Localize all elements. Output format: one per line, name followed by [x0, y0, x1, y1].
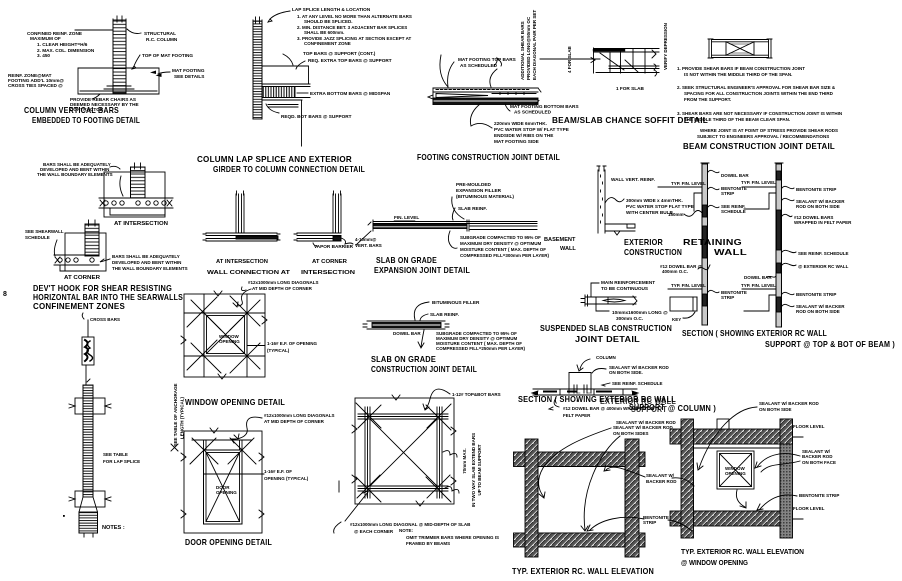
svg-text:AT CORNER: AT CORNER [312, 259, 347, 265]
svg-text:REQD. BOT BARS @ SUPPORT: REQD. BOT BARS @ SUPPORT [281, 114, 352, 119]
svg-text:DOWEL BAR: DOWEL BAR [744, 275, 772, 280]
right band R [625, 439, 639, 557]
svg-text:150mm: 150mm [668, 212, 684, 217]
svg-text:PVC WATER STOP FLAT TYPE: PVC WATER STOP FLAT TYPE [626, 204, 694, 209]
svg-text:COLUMN VERTICAL BARS: COLUMN VERTICAL BARS [24, 106, 119, 115]
leaders Q [577, 359, 590, 371]
leaders M [414, 302, 429, 321]
svg-text:AT INTERSECTION: AT INTERSECTION [114, 221, 168, 227]
svg-text:WALL: WALL [714, 248, 747, 257]
svg-text:IS NOT WITHIN THE MIDDLE THIRD: IS NOT WITHIN THE MIDDLE THIRD OF THE SP… [684, 72, 792, 77]
svg-text:FOOTING CONSTRUCTION JOINT DET: FOOTING CONSTRUCTION JOINT DETAIL [417, 153, 560, 162]
svg-text:SHOULD BE SPLICED.: SHOULD BE SPLICED. [304, 19, 353, 24]
svg-text:BENTONITE STRIP: BENTONITE STRIP [799, 493, 839, 498]
svg-text:(TYPICAL): (TYPICAL) [267, 348, 290, 353]
svg-text:ENDSIDE W/ RIBS ON THE: ENDSIDE W/ RIBS ON THE [494, 133, 553, 138]
svg-text:SEALANT W/ BACKER ROD: SEALANT W/ BACKER ROD [613, 425, 673, 430]
leaders H [452, 197, 464, 220]
svg-text:COLUMN: COLUMN [596, 355, 616, 360]
svg-text:@ WINDOW OPENING: @ WINDOW OPENING [681, 558, 748, 567]
svg-text:UP TO BEAM SUPPORT: UP TO BEAM SUPPORT [477, 444, 482, 495]
svg-text:2. SEEK STRUCTURAL ENGINEER'S: 2. SEEK STRUCTURAL ENGINEER'S APPROVAL F… [677, 85, 836, 90]
svg-text:INTERSECTION: INTERSECTION [301, 270, 355, 276]
inner outline S [694, 444, 781, 511]
svg-text:BEAM CONSTRUCTION JOINT DETAIL: BEAM CONSTRUCTION JOINT DETAIL [683, 142, 835, 151]
svg-text:AS SCHEDULED: AS SCHEDULED [514, 110, 552, 115]
svg-text:#12x1000mm LONG DIAGONALS: #12x1000mm LONG DIAGONALS [248, 280, 319, 285]
floor level lines S [793, 437, 804, 519]
svg-text:SLAB ON GRADE: SLAB ON GRADE [371, 355, 436, 364]
X brace O [206, 453, 240, 522]
svg-text:ROD ON BOTH SIDE: ROD ON BOTH SIDE [796, 204, 840, 209]
svg-text:4-10mm@: 4-10mm@ [355, 237, 377, 242]
lone tick [338, 481, 340, 492]
column A ladder [113, 16, 126, 93]
svg-text:SEALANT W/: SEALANT W/ [646, 473, 675, 478]
slab K [581, 283, 637, 311]
svg-text:THE WALL BOUNDARY ELEMENTS: THE WALL BOUNDARY ELEMENTS [112, 266, 188, 271]
labels B [197, 7, 412, 174]
outer box P [355, 398, 454, 504]
splice flare bottom [75, 491, 105, 507]
inner window box L [204, 313, 247, 356]
lap cone N [79, 497, 98, 512]
retaining wall section [658, 163, 709, 325]
svg-text:@ EXTERIOR RC WALL: @ EXTERIOR RC WALL [798, 264, 849, 269]
leader rebar chairs [92, 94, 100, 99]
svg-text:STRIP: STRIP [643, 520, 656, 525]
svg-text:IN TWO WAY SLAB EXTEND BARS: IN TWO WAY SLAB EXTEND BARS [471, 433, 476, 507]
wall2 section [742, 163, 783, 327]
svg-text:PRE-MOULDED: PRE-MOULDED [456, 182, 492, 187]
svg-text:SUBGRADE COMPACTED TO 95% OF: SUBGRADE COMPACTED TO 95% OF [460, 235, 541, 240]
left band R [525, 439, 538, 557]
svg-text:BENTONITE STRIP: BENTONITE STRIP [796, 187, 836, 192]
svg-text:STRIP: STRIP [721, 191, 734, 196]
svg-text:SLAB REINF.: SLAB REINF. [458, 206, 487, 211]
G corner [294, 191, 353, 244]
svg-text:@ EACH CORNER: @ EACH CORNER [354, 529, 394, 534]
svg-text:WITH CENTER BULB: WITH CENTER BULB [626, 210, 673, 215]
svg-text:ROD ON BOTH SIDE: ROD ON BOTH SIDE [796, 309, 840, 314]
svg-text:MAT FOOTING BOTTOM BARS: MAT FOOTING BOTTOM BARS [510, 104, 579, 109]
svg-text:FROM THE SUPPORT.: FROM THE SUPPORT. [684, 97, 731, 102]
svg-text:TO BE CONTINUOUS: TO BE CONTINUOUS [601, 286, 648, 291]
svg-text:STRIP: STRIP [721, 295, 734, 300]
bottom band S [670, 511, 793, 526]
svg-text:VERT. BARS: VERT. BARS [355, 243, 382, 248]
svg-text:8: 8 [3, 291, 7, 298]
svg-text:OPENING: OPENING [216, 490, 237, 495]
svg-text:1 FOR SLAB: 1 FOR SLAB [616, 86, 644, 91]
leader confined reinf zone [75, 29, 113, 31]
labels H [314, 182, 576, 275]
svg-text:SEE TABLE: SEE TABLE [103, 452, 128, 457]
svg-text:GIRDER TO COLUMN CONNECTION DE: GIRDER TO COLUMN CONNECTION DETAIL [213, 165, 365, 174]
svg-text:TOP BARS @ SUPPORT (CONT.): TOP BARS @ SUPPORT (CONT.) [303, 51, 376, 56]
door jambs O [204, 450, 243, 524]
svg-text:CROSS BARS: CROSS BARS [90, 317, 120, 322]
svg-text:WHERE JOINT IS AT POINT OF STR: WHERE JOINT IS AT POINT OF STRESS PROVID… [700, 128, 838, 133]
svg-text:TYP. FIN. LEVEL: TYP. FIN. LEVEL [671, 181, 706, 186]
labels A [8, 31, 205, 125]
svg-text:ADDITIONAL SHEAR BARS: ADDITIONAL SHEAR BARS [520, 21, 525, 80]
svg-text:(BITUMINOUS MATERIAL): (BITUMINOUS MATERIAL) [456, 194, 514, 199]
svg-text:10mmx1600mm LONG @: 10mmx1600mm LONG @ [612, 310, 668, 315]
svg-text:TYP. EXTERIOR RC. WALL ELEVATI: TYP. EXTERIOR RC. WALL ELEVATION [681, 547, 804, 556]
band lines L [184, 294, 265, 377]
svg-text:TYP. FIN. LEVEL: TYP. FIN. LEVEL [671, 283, 706, 288]
slab band Q [533, 389, 637, 395]
svg-text:SEE SHEARWALL: SEE SHEARWALL [25, 229, 64, 234]
tie box N [82, 337, 94, 365]
svg-text:WRAPPED IN FELT PAPER: WRAPPED IN FELT PAPER [794, 220, 852, 225]
leader I [605, 198, 624, 203]
svg-text:TOP OF MAT FOOTING: TOP OF MAT FOOTING [142, 53, 193, 58]
svg-text:AT MID DEPTH OF CORNER: AT MID DEPTH OF CORNER [252, 286, 313, 291]
svg-text:BASEMENT: BASEMENT [544, 237, 576, 243]
top band S [670, 429, 793, 444]
svg-text:DEV'T HOOK FOR SHEAR RESISTING: DEV'T HOOK FOR SHEAR RESISTING [33, 284, 172, 293]
svg-text:COMPRESSED FILL=300mm PER LAYE: COMPRESSED FILL=300mm PER LAYER) [460, 253, 549, 258]
svg-text:CONSTRUCTION JOINT DETAIL: CONSTRUCTION JOINT DETAIL [371, 365, 477, 374]
corner diagonals L [187, 296, 260, 373]
svg-text:EXTERIOR: EXTERIOR [624, 238, 663, 247]
leader L diagonals label [233, 289, 251, 307]
svg-text:R.C. COLUMN: R.C. COLUMN [146, 37, 178, 42]
breaks O [181, 428, 264, 518]
svg-text:PVC WATER STOP W/ FLAT TYPE: PVC WATER STOP W/ FLAT TYPE [494, 127, 569, 132]
svg-text:SUSPENDED SLAB CONSTRUCTION: SUSPENDED SLAB CONSTRUCTION [540, 324, 672, 333]
svg-text:1-12# TOP&BOT BARS: 1-12# TOP&BOT BARS [452, 392, 501, 397]
svg-text:SUBJECT TO ENGINEERS APPROVAL: SUBJECT TO ENGINEERS APPROVAL / RECOMMEN… [697, 134, 829, 139]
vertical label D [567, 23, 668, 91]
leader O [234, 417, 262, 439]
svg-text:EXPANSION JOINT DETAIL: EXPANSION JOINT DETAIL [374, 266, 470, 275]
svg-text:SEE REINF. SCHEDULE: SEE REINF. SCHEDULE [612, 381, 663, 386]
svg-text:FOR LAP SPLICE: FOR LAP SPLICE [103, 459, 140, 464]
svg-text:WALL CONNECTION AT: WALL CONNECTION AT [207, 270, 291, 276]
svg-text:LAP SPLICE LENGTH & LOCATION: LAP SPLICE LENGTH & LOCATION [292, 7, 371, 12]
svg-text:DEVELOPED AND BENT WITHIN: DEVELOPED AND BENT WITHIN [112, 260, 181, 265]
window S [717, 451, 754, 489]
svg-text:EMBEDDED TO FOOTING DETAIL: EMBEDDED TO FOOTING DETAIL [32, 116, 140, 125]
svg-text:70mm MAX.: 70mm MAX. [462, 448, 467, 474]
svg-text:PROVIDED LONG@50mm OC: PROVIDED LONG@50mm OC [526, 16, 531, 80]
wall I [597, 166, 635, 235]
svg-text:WINDOW OPENING DETAIL: WINDOW OPENING DETAIL [185, 398, 285, 407]
svg-text:BARS SHALL BE ADEQUATELY: BARS SHALL BE ADEQUATELY [112, 254, 180, 259]
svg-text:FRAMED BY BEAMS: FRAMED BY BEAMS [406, 541, 450, 546]
svg-text:300mm O.C.: 300mm O.C. [616, 316, 643, 321]
F1 at intersection [99, 163, 173, 217]
tall bar N [83, 385, 93, 497]
right band S [780, 419, 793, 538]
svg-text:220mm WIDE 6mmTHK.: 220mm WIDE 6mmTHK. [494, 121, 547, 126]
outer box L [184, 294, 265, 377]
svg-text:#12x1000mm LONG DIAGONAL @ MID: #12x1000mm LONG DIAGONAL @ MID-DEPTH OF … [350, 522, 471, 527]
svg-text:SEALANT W/ BACKER ROD: SEALANT W/ BACKER ROD [616, 420, 676, 425]
bar bundles P [358, 414, 448, 419]
svg-text:FIN. LEVEL: FIN. LEVEL [394, 215, 419, 220]
svg-text:DOOR OPENING DETAIL: DOOR OPENING DETAIL [185, 538, 272, 547]
svg-text:3. 450: 3. 450 [37, 53, 50, 58]
top band R [514, 452, 646, 467]
labels G [207, 237, 382, 291]
svg-text:REQ. EXTRA TOP BARS @ SUPPORT: REQ. EXTRA TOP BARS @ SUPPORT [308, 58, 392, 63]
svg-text:WALL VERT. REINF.: WALL VERT. REINF. [611, 177, 655, 182]
svg-text:MAXIMUM OF: MAXIMUM OF [30, 36, 61, 41]
mid line O [204, 473, 265, 475]
bottom band R [514, 533, 646, 547]
footing A [78, 68, 159, 94]
beam sketch E [708, 39, 772, 58]
svg-text:RETAINING: RETAINING [683, 238, 742, 247]
X brace L [207, 316, 245, 354]
arrow top of mat footing [132, 55, 140, 69]
labels J [660, 173, 895, 349]
svg-text:ON BOTH SIDE: ON BOTH SIDE [759, 407, 792, 412]
svg-text:DOWEL BAR: DOWEL BAR [721, 173, 749, 178]
leaders B [268, 11, 290, 22]
svg-text:MAT FOOTING TOP BARS: MAT FOOTING TOP BARS [458, 57, 516, 62]
svg-text:OMIT TRIMMER BARS WHERE OPENIN: OMIT TRIMMER BARS WHERE OPENING IS [406, 535, 499, 540]
svg-text:BEAM/SLAB CHANCE SOFFIT DETAIL: BEAM/SLAB CHANCE SOFFIT DETAIL [552, 116, 708, 125]
svg-text:SEALANT W/ BACKER ROD: SEALANT W/ BACKER ROD [759, 401, 819, 406]
svg-text:SEE DETAILS: SEE DETAILS [174, 74, 204, 79]
slab H [368, 220, 537, 231]
svg-text:#12 DOWEL BAR @ 400mm WRAPPED: #12 DOWEL BAR @ 400mm WRAPPED ON [563, 406, 654, 411]
corner ticks P [356, 403, 451, 502]
svg-text:JOINT DETAIL: JOINT DETAIL [575, 335, 640, 344]
soffit sketch [591, 48, 659, 76]
svg-text:@ COLUMN ): @ COLUMN ) [668, 404, 716, 413]
svg-text:EACH DIAGONAL PAIR PER SET: EACH DIAGONAL PAIR PER SET [532, 10, 537, 80]
outer box O [184, 431, 262, 533]
svg-text:SEE REINF. SCHEDULE: SEE REINF. SCHEDULE [798, 251, 849, 256]
svg-text:ON BOTH SIDES: ON BOTH SIDES [613, 431, 649, 436]
arrows mat footing [150, 71, 162, 78]
leaders R [539, 428, 611, 498]
svg-text:DOWEL BAR: DOWEL BAR [393, 331, 421, 336]
leader structural col [127, 29, 141, 34]
svg-text:VAPOR BARRIER: VAPOR BARRIER [314, 244, 354, 249]
svg-text:MAXIMUM DRY DENSITY @ OPTIMUM: MAXIMUM DRY DENSITY @ OPTIMUM [460, 241, 542, 246]
svg-text:SLAB ON GRADE: SLAB ON GRADE [376, 256, 437, 265]
column B ladder [253, 17, 262, 119]
svg-text:300mm WIDE x 4mmTHK.: 300mm WIDE x 4mmTHK. [626, 198, 683, 203]
svg-text:SUPPORT @ TOP & BOT OF BEAM ): SUPPORT @ TOP & BOT OF BEAM ) [765, 340, 895, 349]
svg-text:BACKER ROD: BACKER ROD [646, 479, 677, 484]
svg-text:EXPANSION FILLER: EXPANSION FILLER [456, 188, 502, 193]
svg-text:400mm O.C.: 400mm O.C. [662, 269, 688, 274]
svg-text:OPENING: OPENING [219, 339, 240, 344]
svg-text:SCHEDULE: SCHEDULE [721, 209, 746, 214]
svg-text:SLAB REINF.: SLAB REINF. [430, 312, 459, 317]
svg-text:1. PROVIDE SHEAR BARS IF BEAM: 1. PROVIDE SHEAR BARS IF BEAM CONSTRUCTI… [677, 66, 805, 71]
svg-text:NOTE:: NOTE: [399, 528, 414, 533]
svg-text:SCHEDULE: SCHEDULE [25, 235, 50, 240]
svg-text:WALL: WALL [560, 246, 576, 252]
svg-text:CONFINEMENT ZONES: CONFINEMENT ZONES [33, 302, 125, 311]
svg-text:AS SCHEDULED: AS SCHEDULED [460, 63, 498, 68]
svg-text:STRUCTURAL: STRUCTURAL [144, 31, 176, 36]
breaks P [352, 395, 456, 506]
svg-text:TYP. FIN. LEVEL: TYP. FIN. LEVEL [741, 180, 776, 185]
svg-text:1-16# E.F. OF OPENING: 1-16# E.F. OF OPENING [267, 341, 318, 346]
corner X O [190, 438, 256, 464]
svg-text:SHALL BE 600mm.: SHALL BE 600mm. [304, 30, 344, 35]
svg-text:1-16# E.F. OF: 1-16# E.F. OF [264, 469, 292, 474]
svg-text:TYP. EXTERIOR RC. WALL ELEVATI: TYP. EXTERIOR RC. WALL ELEVATION [512, 567, 654, 576]
svg-text:MAT FOOTING SIDE: MAT FOOTING SIDE [494, 139, 539, 144]
svg-text:EXTRA BOTTOM BARS @ MIDSPAN: EXTRA BOTTOM BARS @ MIDSPAN [310, 91, 391, 96]
leaders C [440, 55, 502, 87]
labels M [371, 300, 525, 374]
line under slab label [540, 58, 600, 60]
svg-text:KEY: KEY [672, 317, 681, 322]
labels I [611, 177, 694, 257]
svg-text:1. CLEAR HEIGHT=H/6: 1. CLEAR HEIGHT=H/6 [37, 42, 88, 47]
notes E [552, 66, 842, 151]
leaders P [423, 389, 450, 410]
svg-text:TYP. FIN. LEVEL: TYP. FIN. LEVEL [741, 283, 776, 288]
G tee [203, 191, 280, 241]
svg-text:OPENING (TYPICAL): OPENING (TYPICAL) [264, 476, 309, 481]
inner outline R [538, 467, 625, 534]
leader squiggles J [708, 170, 719, 292]
svg-text:SPACING FOR ALL CONSTRUCTION J: SPACING FOR ALL CONSTRUCTION JOINTS WITH… [684, 91, 834, 96]
left band S [681, 419, 694, 538]
F2 at corner [54, 220, 110, 271]
svg-text:BENTONITE STRIP: BENTONITE STRIP [796, 292, 836, 297]
svg-text:SECTION ( SHOWING EXTERIOR RC: SECTION ( SHOWING EXTERIOR RC WALL [682, 329, 827, 338]
column stub Q [569, 373, 591, 394]
svg-text:AT CORNER: AT CORNER [64, 275, 100, 281]
svg-text:BITUMINOUS FILLER: BITUMINOUS FILLER [432, 300, 480, 305]
svg-text:ON BOTH FACE: ON BOTH FACE [802, 460, 836, 465]
svg-text:CROSS TIES SPACED @: CROSS TIES SPACED @ [8, 83, 63, 88]
labels F [3, 162, 188, 311]
svg-text:SEE TABLE OF ANCHORAGE: SEE TABLE OF ANCHORAGE [173, 383, 178, 446]
slab M [363, 321, 449, 329]
svg-text:CONFINEMENT ZONE: CONFINEMENT ZONE [304, 41, 351, 46]
footing slab C [428, 88, 541, 105]
svg-text:FELT PAPER: FELT PAPER [563, 413, 591, 418]
svg-text:COMPRESSED FILL=250mm PER LAYE: COMPRESSED FILL=250mm PER LAYER) [436, 346, 525, 351]
svg-text:MAIN REINFORCEMENT: MAIN REINFORCEMENT [601, 280, 655, 285]
splice flare top [75, 398, 105, 414]
svg-text:OPENING: OPENING [725, 471, 746, 476]
leaders S [697, 407, 757, 470]
X diagonals P [370, 419, 437, 486]
svg-text:#12x1000mm LONG DIAGONALS: #12x1000mm LONG DIAGONALS [264, 413, 335, 418]
svg-text:BACKER ROD: BACKER ROD [802, 454, 833, 459]
svg-text:MOISTURE CONTENT ( MAX. DEPTH: MOISTURE CONTENT ( MAX. DEPTH OF [460, 247, 546, 252]
svg-text:THE WALL BOUNDARY ELEMENTS: THE WALL BOUNDARY ELEMENTS [37, 172, 113, 177]
svg-text:MAT FOOTING: MAT FOOTING [172, 68, 205, 73]
cross bars label leader [82, 313, 84, 319]
svg-text:HORIZONTAL BAR INTO THE SEARWA: HORIZONTAL BAR INTO THE SEARWALLS [33, 293, 183, 302]
svg-text:CONSTRUCTION: CONSTRUCTION [624, 248, 682, 257]
svg-text:FLOOR LEVEL: FLOOR LEVEL [793, 424, 825, 429]
svg-text:COLUMN LAP SPLICE AND EXTERIOR: COLUMN LAP SPLICE AND EXTERIOR [197, 155, 352, 164]
svg-text:VERIFY DEPRESSION: VERIFY DEPRESSION [663, 23, 668, 70]
break marks L [181, 291, 267, 379]
girder B [262, 66, 310, 146]
top notch box S [717, 419, 729, 429]
vertical note C [417, 10, 579, 162]
svg-text:LENGTH (TYPICAL): LENGTH (TYPICAL) [180, 397, 185, 439]
svg-text:NOTES :: NOTES : [102, 525, 125, 531]
labels K [540, 280, 672, 344]
svg-text:AT INTERSECTION: AT INTERSECTION [216, 259, 268, 265]
svg-text:FLOOR LEVEL: FLOOR LEVEL [793, 506, 825, 511]
svg-text:ON BOTH SIDE.: ON BOTH SIDE. [609, 370, 643, 375]
svg-text:AT MID DEPTH OF CORNER: AT MID DEPTH OF CORNER [264, 419, 325, 424]
